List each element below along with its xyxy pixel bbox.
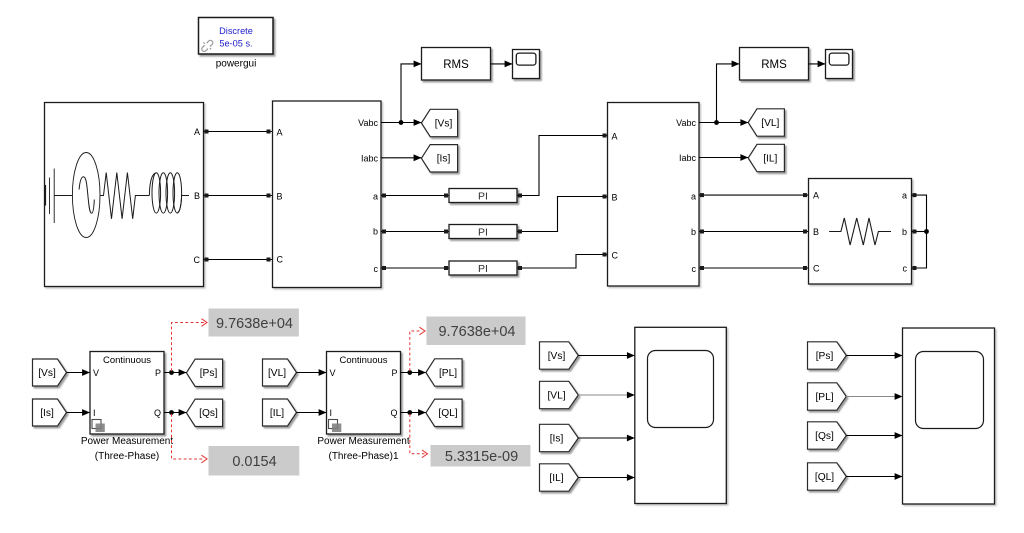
PM1 overlapping-squares badge bbox=[92, 420, 105, 433]
wire Vs tag to scope3 bbox=[578, 355, 635, 357]
svg-text:[Is]: [Is] bbox=[550, 433, 564, 444]
svg-text:Discrete: Discrete bbox=[219, 26, 253, 36]
wire Vs tag to PM1 V bbox=[67, 372, 91, 374]
svg-text:B: B bbox=[194, 191, 200, 201]
power measurement block 1 bbox=[90, 352, 164, 435]
goto tag IL bbox=[748, 144, 784, 171]
wire meas1 Vabc to Vs tag with branch to RMS1 bbox=[381, 64, 422, 123]
svg-text:I: I bbox=[330, 408, 333, 418]
wire Qs tag to scope4 bbox=[846, 435, 902, 437]
RMS block 1 bbox=[422, 48, 491, 81]
svg-text:[Vs]: [Vs] bbox=[548, 351, 566, 362]
svg-text:[PL]: [PL] bbox=[439, 368, 457, 379]
goto tag Vs bbox=[421, 109, 457, 136]
junction dot Vabc source bbox=[399, 120, 404, 125]
svg-text:P: P bbox=[391, 368, 397, 378]
three-phase load block bbox=[809, 179, 912, 285]
svg-text:[Vs]: [Vs] bbox=[435, 118, 453, 129]
svg-text:C: C bbox=[194, 255, 201, 265]
from tag Qs (scope group) bbox=[808, 422, 847, 449]
svg-text:9.7638e+04: 9.7638e+04 bbox=[438, 324, 515, 340]
wire RMS2 to scope2 bbox=[809, 63, 826, 65]
from tag Ps (scope group) bbox=[808, 342, 847, 369]
arrowhead into IL goto bbox=[740, 154, 748, 161]
svg-text:[Ps]: [Ps] bbox=[816, 351, 834, 362]
load resistor icon bbox=[829, 218, 891, 245]
from tag PL (scope group) bbox=[808, 383, 847, 410]
svg-text:[VL]: [VL] bbox=[268, 368, 286, 379]
red dashed link PM2 P to display3 bbox=[410, 327, 425, 371]
PI section block 2 bbox=[449, 225, 517, 239]
wire Is tag to scope3 bbox=[578, 437, 635, 439]
wire source C to meas1 C bbox=[204, 258, 273, 262]
arrowhead into PL goto bbox=[418, 369, 426, 376]
svg-text:a: a bbox=[902, 191, 907, 201]
arrowhead into PM1 V bbox=[82, 369, 90, 376]
from tag VL (scope group) bbox=[540, 381, 579, 408]
svg-text:PI: PI bbox=[478, 263, 488, 275]
svg-text:RMS: RMS bbox=[443, 59, 469, 71]
svg-text:Iabc: Iabc bbox=[679, 153, 697, 163]
wire Ps tag to scope4 bbox=[846, 355, 902, 357]
red dashed link PM1 Q to display2 bbox=[172, 414, 208, 463]
arrowhead into scope3 in4 bbox=[627, 474, 635, 481]
svg-text:Power Measurement: Power Measurement bbox=[81, 436, 173, 447]
wire PM1 P to Ps tag bbox=[164, 372, 187, 374]
svg-text:Vabc: Vabc bbox=[358, 118, 378, 128]
arrowhead into scope4 in1 bbox=[895, 352, 903, 359]
arrowhead into scope3 in3 bbox=[627, 435, 635, 442]
arrowhead into scope2 bbox=[818, 61, 826, 68]
arrowhead into scope1 bbox=[505, 61, 513, 68]
svg-text:c: c bbox=[692, 264, 697, 274]
svg-text:Continuous: Continuous bbox=[103, 355, 151, 366]
goto tag Is bbox=[421, 145, 457, 172]
svg-text:b: b bbox=[691, 227, 696, 237]
arrowhead into Vs goto bbox=[414, 119, 422, 126]
powergui block bbox=[199, 18, 274, 55]
svg-text:a: a bbox=[373, 191, 378, 201]
wire meas2 a to load A bbox=[699, 193, 809, 197]
arrowhead into scope4 in3 bbox=[895, 432, 903, 439]
from tag Vs bbox=[33, 359, 67, 386]
from tag VL bbox=[263, 359, 297, 386]
svg-text:[IL]: [IL] bbox=[549, 473, 563, 484]
wire meas2 c to load C bbox=[699, 266, 809, 270]
svg-text:C: C bbox=[277, 254, 284, 264]
power measurement block 2 bbox=[327, 352, 401, 435]
from tag Is (scope group) bbox=[540, 424, 579, 451]
junction dot PM1 Q bbox=[169, 410, 174, 415]
arrowhead into PM1 I bbox=[82, 409, 90, 416]
source icon: resistor zigzag bbox=[100, 173, 149, 219]
svg-text:B: B bbox=[277, 191, 283, 201]
svg-text:RMS: RMS bbox=[761, 59, 787, 71]
wire PI1 to meas2 A bbox=[517, 134, 608, 198]
svg-text:C: C bbox=[612, 250, 619, 260]
svg-text:B: B bbox=[612, 192, 618, 202]
arrowhead into PM2 I bbox=[319, 409, 327, 416]
junction dot PM1 P bbox=[169, 370, 174, 375]
junction dot load b bbox=[924, 229, 929, 234]
svg-text:A: A bbox=[194, 127, 200, 137]
three-phase V-I measurement block 1 bbox=[273, 101, 382, 288]
svg-text:(Three-Phase)1: (Three-Phase)1 bbox=[328, 451, 398, 462]
wire PI3 to meas2 C bbox=[517, 253, 608, 271]
powergui broken-link icon bbox=[199, 37, 216, 54]
svg-text:0.0154: 0.0154 bbox=[232, 454, 276, 470]
svg-text:b: b bbox=[902, 227, 907, 237]
svg-text:[IL]: [IL] bbox=[763, 153, 777, 164]
display 3 bbox=[427, 317, 526, 346]
svg-text:[Is]: [Is] bbox=[40, 408, 54, 419]
wire meas1 a to PI1 bbox=[381, 194, 449, 198]
arrowhead into scope3 in2 bbox=[627, 392, 635, 399]
PI section block 3 bbox=[449, 261, 517, 275]
wire PM2 P to PL tag bbox=[401, 372, 427, 374]
svg-text:9.7638e+04: 9.7638e+04 bbox=[216, 316, 293, 332]
svg-text:b: b bbox=[373, 226, 378, 236]
wire VL tag to scope3 (gray) bbox=[578, 394, 635, 396]
svg-text:[PL]: [PL] bbox=[815, 392, 833, 403]
arrowhead into VL goto bbox=[740, 119, 748, 126]
svg-text:c: c bbox=[374, 264, 379, 274]
wire PL tag to scope4 (gray) bbox=[846, 396, 902, 398]
svg-text:A: A bbox=[612, 131, 618, 141]
svg-text:[Vs]: [Vs] bbox=[38, 368, 56, 379]
svg-text:(Three-Phase): (Three-Phase) bbox=[95, 451, 159, 462]
wire source B to meas1 B bbox=[204, 194, 273, 198]
scope 1 bbox=[513, 50, 540, 79]
wire meas1 c to PI3 bbox=[381, 266, 449, 270]
three-phase source block bbox=[45, 103, 204, 287]
svg-text:[IL]: [IL] bbox=[270, 408, 284, 419]
display 4 bbox=[431, 445, 531, 467]
svg-text:PI: PI bbox=[478, 190, 488, 202]
source icon: sine wave bbox=[79, 177, 94, 213]
from tag QL (scope group) bbox=[808, 463, 847, 490]
goto tag Qs bbox=[186, 399, 222, 426]
arrowhead into PM2 V bbox=[319, 369, 327, 376]
svg-text:Continuous: Continuous bbox=[339, 355, 387, 366]
red dashed link PM2 Q to display4 bbox=[410, 414, 428, 458]
svg-text:Vabc: Vabc bbox=[676, 118, 696, 128]
svg-text:PI: PI bbox=[478, 226, 488, 238]
svg-text:Power Measurement: Power Measurement bbox=[317, 436, 409, 447]
from tag Vs (scope group) bbox=[540, 342, 579, 369]
RMS block 2 bbox=[740, 48, 809, 81]
svg-text:[VL]: [VL] bbox=[547, 390, 565, 401]
arrowhead into QL goto bbox=[418, 409, 426, 416]
svg-text:[Qs]: [Qs] bbox=[815, 431, 834, 442]
PI section block 1 bbox=[449, 189, 517, 203]
svg-text:P: P bbox=[155, 368, 161, 378]
scope 2 bbox=[826, 50, 853, 79]
goto tag PL bbox=[426, 359, 462, 386]
from tag IL bbox=[263, 399, 297, 426]
svg-text:V: V bbox=[93, 368, 99, 378]
svg-text:I: I bbox=[93, 408, 96, 418]
from tag Is bbox=[33, 399, 67, 426]
svg-text:V: V bbox=[330, 368, 336, 378]
svg-text:[QL]: [QL] bbox=[438, 408, 457, 419]
from tag IL (scope group) bbox=[540, 464, 579, 491]
source icon: AC source ellipse bbox=[72, 153, 100, 238]
wire meas2 b to load B bbox=[699, 230, 809, 234]
svg-text:B: B bbox=[813, 227, 819, 237]
svg-text:Q: Q bbox=[154, 408, 161, 418]
arrowhead into Qs goto bbox=[179, 409, 187, 416]
svg-text:5.3315e-09: 5.3315e-09 bbox=[445, 449, 518, 465]
svg-text:[Qs]: [Qs] bbox=[199, 408, 218, 419]
source icon: inductor coils bbox=[149, 173, 189, 213]
arrowhead into Is goto bbox=[414, 154, 422, 161]
PM2 overlapping-squares badge bbox=[329, 420, 342, 433]
junction dot PM2 P bbox=[407, 370, 412, 375]
wire PM2 Q to QL tag bbox=[401, 412, 427, 414]
junction dot PM2 Q bbox=[407, 410, 412, 415]
svg-text:powergui: powergui bbox=[216, 59, 257, 70]
svg-text:A: A bbox=[277, 127, 283, 137]
svg-text:a: a bbox=[691, 191, 696, 201]
svg-text:Q: Q bbox=[390, 408, 397, 418]
scope 4 (4-input) bbox=[903, 328, 995, 504]
arrowhead into RMS1 bbox=[414, 61, 422, 68]
display 2 bbox=[209, 446, 300, 476]
goto tag VL bbox=[748, 109, 784, 136]
arrowhead into scope4 in4 bbox=[895, 473, 903, 480]
wire PI2 to meas2 B bbox=[517, 195, 608, 234]
wire IL tag to scope3 bbox=[578, 477, 635, 479]
wire IL tag to PM2 I bbox=[297, 412, 327, 414]
arrowhead into Ps goto bbox=[179, 369, 187, 376]
wire meas2 Vabc to VL tag with branch to RMS2 bbox=[699, 64, 748, 123]
svg-text:[Is]: [Is] bbox=[437, 154, 451, 165]
wire Is tag to PM1 I bbox=[67, 412, 91, 414]
arrowhead into RMS2 bbox=[732, 61, 740, 68]
scope 3 (4-input) bbox=[635, 327, 727, 503]
svg-text:A: A bbox=[813, 191, 819, 201]
three-phase V-I measurement block 2 bbox=[608, 103, 700, 287]
load right-side shorting wire a-b-c bbox=[912, 193, 927, 270]
wire QL tag to scope4 bbox=[846, 476, 902, 478]
arrowhead into scope4 in2 bbox=[895, 393, 903, 400]
svg-text:C: C bbox=[813, 263, 820, 273]
wire meas1 b to PI2 bbox=[381, 230, 449, 234]
svg-text:[Ps]: [Ps] bbox=[200, 368, 218, 379]
wire meas2 Iabc to IL tag bbox=[699, 157, 748, 159]
svg-text:[VL]: [VL] bbox=[761, 118, 779, 129]
svg-text:c: c bbox=[903, 263, 908, 273]
svg-text:Iabc: Iabc bbox=[361, 153, 379, 163]
wire source A to meas1 A bbox=[204, 130, 273, 134]
red dashed link PM1 P to display1 bbox=[172, 319, 208, 371]
display 1 bbox=[209, 309, 299, 337]
svg-text:[QL]: [QL] bbox=[815, 472, 834, 483]
wire VL tag to PM2 V bbox=[297, 372, 327, 374]
goto tag QL bbox=[426, 399, 462, 426]
wire RMS1 to scope1 bbox=[491, 63, 513, 65]
wire meas1 Iabc to Is tag bbox=[381, 157, 422, 159]
arrowhead into scope3 in1 bbox=[627, 352, 635, 359]
junction dot Vabc load bbox=[714, 120, 719, 125]
svg-text:5e-05 s.: 5e-05 s. bbox=[219, 39, 252, 49]
goto tag Ps bbox=[186, 359, 222, 386]
source icon: battery plates bbox=[45, 169, 72, 224]
wire PM1 Q to Qs tag bbox=[164, 412, 187, 414]
